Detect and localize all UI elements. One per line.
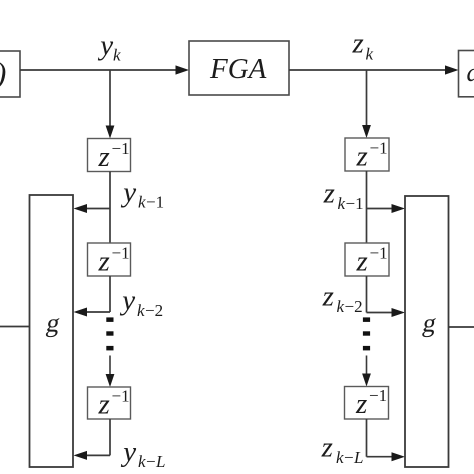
svg-text:k: k xyxy=(138,193,146,212)
block g (left) xyxy=(30,195,74,467)
delay z^-1 R3 xyxy=(345,386,389,420)
delay z^-1 L3 xyxy=(88,387,131,421)
delay z^-1 L2 xyxy=(88,243,131,278)
svg-text:z: z xyxy=(98,141,110,173)
label y_k xyxy=(97,30,121,65)
svg-text:k: k xyxy=(338,194,346,213)
wire : delay L1 to delay L2 xyxy=(109,172,111,244)
wire y_{k-1} into g (left) xyxy=(74,204,111,213)
decision block (partially visible at right edge) xyxy=(459,51,474,97)
svg-text:L: L xyxy=(353,448,363,467)
svg-text:): ) xyxy=(0,56,6,91)
label z_k xyxy=(352,28,374,64)
svg-text:L: L xyxy=(155,452,165,471)
svg-text:z: z xyxy=(355,388,367,420)
svg-text:−1: −1 xyxy=(112,244,130,263)
delay z^-1 R2 xyxy=(345,243,389,278)
svg-text:z: z xyxy=(356,246,368,278)
svg-text:z: z xyxy=(321,432,333,464)
svg-text:−1: −1 xyxy=(146,193,164,212)
wire with arrow into delay L3 xyxy=(106,356,115,388)
svg-text:k: k xyxy=(113,46,121,65)
wire y_{k-2} into g (left) xyxy=(74,308,111,317)
svg-text:−1: −1 xyxy=(112,387,130,406)
svg-text:−: − xyxy=(344,448,354,467)
svg-text:−1: −1 xyxy=(112,139,130,158)
svg-text:z: z xyxy=(356,141,368,173)
wire : delay R2 down to z_{k-2} node xyxy=(366,276,368,313)
wire z_{k-L} into g (right) xyxy=(367,419,406,461)
svg-text:−: − xyxy=(146,452,156,471)
svg-text:k: k xyxy=(138,452,146,471)
svg-text:−1: −1 xyxy=(346,194,364,213)
svg-text:FGA: FGA xyxy=(209,53,267,85)
wire with arrow into delay R3 xyxy=(362,356,371,387)
label y_{k-2} xyxy=(119,285,163,321)
ellipsis dashes (right chain) xyxy=(363,317,370,350)
svg-text:y: y xyxy=(120,436,136,468)
svg-text:k: k xyxy=(366,45,374,64)
delay z^-1 R1 xyxy=(345,138,389,173)
svg-text:k: k xyxy=(336,448,344,467)
input block (partially visible at left edge) xyxy=(0,51,20,97)
label y_{k-1} xyxy=(120,177,164,212)
wire y_k : input block to FGA xyxy=(20,65,189,74)
output wire (left) xyxy=(0,326,30,328)
wire : z_k tap down to delay R1 xyxy=(362,70,371,138)
delay z^-1 L1 xyxy=(88,139,131,174)
wire : delay L2 down to y_{k-2} node xyxy=(109,276,111,312)
svg-text:z: z xyxy=(323,178,335,210)
svg-text:−2: −2 xyxy=(345,297,363,316)
wire z_{k-2} into g (right) xyxy=(367,308,406,317)
svg-text:−1: −1 xyxy=(370,139,388,158)
svg-text:y: y xyxy=(120,177,136,209)
svg-text:k: k xyxy=(337,297,345,316)
svg-text:z: z xyxy=(98,246,110,278)
wire y_{k-L} into g (left) xyxy=(74,419,111,460)
svg-text:y: y xyxy=(119,285,135,317)
label z_{k-2} xyxy=(322,281,363,317)
block g (right) xyxy=(405,196,449,467)
svg-text:d: d xyxy=(467,58,474,87)
wire z_{k-1} into g (right) xyxy=(367,204,406,213)
wire : delay R1 to delay R2 xyxy=(366,171,368,243)
ellipsis dashes (left chain) xyxy=(106,317,113,350)
svg-text:−2: −2 xyxy=(145,301,163,320)
wire : y_k tap down to delay L1 xyxy=(106,70,115,139)
svg-text:y: y xyxy=(97,30,113,62)
svg-text:z: z xyxy=(352,28,364,60)
output wire (right) xyxy=(449,326,474,328)
svg-text:z: z xyxy=(98,389,110,421)
block FGA U1 xyxy=(189,41,289,95)
wire z_k : FGA to decision block xyxy=(289,65,459,74)
svg-text:−1: −1 xyxy=(370,244,388,263)
label z_{k-1} xyxy=(323,178,364,214)
label z_{k-L} xyxy=(321,432,364,468)
label y_{k-L} xyxy=(120,436,165,471)
svg-text:k: k xyxy=(137,301,145,320)
svg-text:z: z xyxy=(322,281,334,313)
svg-text:−1: −1 xyxy=(369,386,387,405)
